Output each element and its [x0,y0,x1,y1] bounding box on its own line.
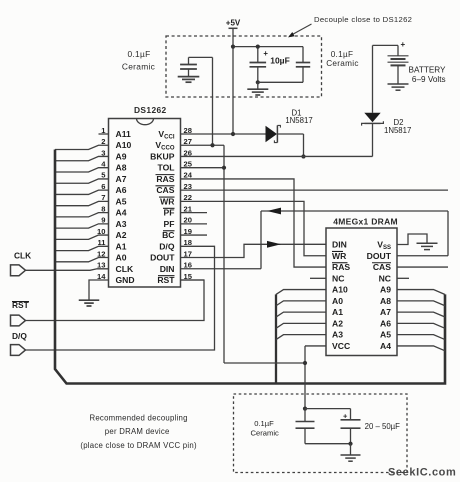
svg-text:A5: A5 [116,196,127,206]
svg-text:WR: WR [160,196,175,206]
wire bus entry U2 A5 [397,335,445,340]
svg-text:+5V: +5V [226,19,241,28]
svg-text:10µF: 10µF [270,56,290,66]
U1 left label A7 [116,174,127,184]
svg-text:DS1262: DS1262 [134,105,167,115]
wire U2 VCC [305,346,326,409]
wire DRAM DOUT to DIN (data return) [261,211,448,256]
svg-text:A4: A4 [116,208,127,218]
wire bus entry U2 A0 [276,301,326,306]
ground for 10uF [247,82,268,95]
U2 left label A10 [332,285,348,295]
U2 right label A5 [380,330,391,340]
U1 left label A11 [116,129,132,139]
battery BT1 6-9V [373,40,447,84]
U1 left label A6 [116,185,127,195]
U1 right label DIN pin 16 [160,264,175,274]
wire address bus entry pin 5 [55,179,109,183]
wire address bus entry pin 6 [55,190,109,194]
svg-text:A6: A6 [116,185,127,195]
U2 right label A9 [380,285,391,295]
IC U2 4MEGx1 DRAM package [326,216,398,355]
wire U2 CAS [397,266,448,268]
svg-text:0.1µF: 0.1µF [331,50,354,59]
wire U2 VSS to ground [397,234,427,245]
U1 pin 1 stub (A11, n/c) [99,133,109,135]
wire DOUT pin 17 to DRAM DIN [181,244,327,257]
node junction VCCO riser [210,143,214,147]
capacitor C5 20-50uF [341,409,401,444]
wire decoupling rail [305,408,351,410]
svg-text:0.1µF: 0.1µF [254,419,274,428]
svg-text:RAS: RAS [332,262,350,272]
U1 right label RAS pin 24 [156,174,175,184]
svg-text:BKUP: BKUP [150,151,175,161]
wire battery to D2 [372,45,374,112]
U1 pin number 8 [101,204,105,213]
U1 pin number 25 [184,159,193,168]
U1 right label TOL pin 25 [157,163,174,173]
svg-text:A3: A3 [116,219,127,229]
svg-text:1N5817: 1N5817 [384,126,411,135]
U1 pin number 3 [101,148,105,157]
wire bus entry U2 A3 [276,335,326,340]
wire D1 cathode to BKUP [277,134,303,156]
U1 pin number 27 [184,137,192,146]
watermark SeekIC.com [388,466,456,478]
svg-text:A1: A1 [116,241,127,251]
U1 pin number 23 [184,182,192,191]
U1 right label PF pin 21 [163,208,175,218]
wire address bus entry pin 8 [55,213,109,217]
U1 left label A5 [116,196,127,206]
svg-text:DOUT: DOUT [150,253,175,263]
wire TOL pin 25 to VCCO [181,167,225,169]
svg-text:per DRAM device: per DRAM device [105,427,170,436]
U1 pin 20 stub [181,223,208,225]
wire address bus entry pin 7 [55,201,109,205]
bus main address (left/bottom/right) [55,150,445,384]
ground for battery [388,84,409,90]
svg-text:1N5817: 1N5817 [285,116,312,125]
diode D1 1N5817 [266,108,313,142]
U2 right label DOUT [367,251,392,261]
U1 right label CAS pin 23 [156,185,175,195]
ground for decoupling [341,444,361,462]
node junction TOL/VCCO [222,166,226,170]
U2 NC stub left [310,277,326,279]
svg-text:TOL: TOL [157,163,174,173]
svg-text:A2: A2 [332,318,343,328]
U1 pin number 6 [101,182,105,191]
wire RAS pin 24 to DRAM [181,179,327,267]
wire BKUP pin 26 to D2 [181,155,373,157]
U2 left label RAS [332,262,350,272]
U2 right label A4 [380,341,391,351]
svg-text:4MEGx1 DRAM: 4MEGx1 DRAM [333,216,398,226]
U1 pin 21 stub [181,212,208,214]
U2 left label DIN [332,240,347,250]
wire C1 top to VCCO line [189,57,213,145]
U1 pin number 28 [184,126,192,135]
svg-text:NC: NC [332,273,344,283]
U1 pin number 26 [184,148,192,157]
svg-text:BATTERY: BATTERY [409,66,447,75]
svg-text:NC: NC [379,273,391,283]
svg-text:A10: A10 [332,285,348,295]
svg-text:Ceramic: Ceramic [326,59,359,68]
ground for U1 GND [79,300,100,306]
U1 right label V<ts pin 28 [158,129,174,141]
svg-text:0.1µF: 0.1µF [127,49,150,59]
capacitor C2 10uF electrolytic [250,47,290,83]
U1 left label A2 [116,230,127,240]
svg-text:A3: A3 [332,330,343,340]
svg-text:D/Q: D/Q [12,331,27,341]
svg-text:Recommended decoupling: Recommended decoupling [89,413,187,422]
svg-text:VCC: VCC [332,341,350,351]
U2 left label A2 [332,318,343,328]
U1 left label CLK [116,264,134,274]
wire D2 to BKUP line [372,123,374,156]
wire D/Q to pin 18 [26,246,215,350]
svg-text:+: + [263,49,268,58]
svg-text:Decouple close to DS1262: Decouple close to DS1262 [314,15,412,24]
svg-text:A4: A4 [380,341,391,351]
svg-text:DIN: DIN [160,264,175,274]
wire bus entry U2 A6 [397,323,445,328]
connector CLK [11,251,32,276]
svg-text:WR: WR [332,251,347,261]
U1 pin number 15 [184,272,193,281]
U1 pin number 16 [184,261,192,270]
wire VCCI pin 28 to D1 anode [181,133,266,135]
svg-text:A0: A0 [116,253,127,263]
U1 pin number 20 [184,216,192,225]
capacitor C3 0.1uF ceramic (in-box right) [296,47,310,83]
arrow into U1 DIN [267,208,281,215]
arrow into DRAM DIN [267,241,281,248]
U2 right label A8 [380,296,391,306]
note: recommended decoupling [80,413,197,450]
U2 right label CAS [372,262,391,272]
svg-text:Ceramic: Ceramic [251,429,279,438]
U1 right label D/Q pin 18 [159,241,175,251]
node junction +5V/VCCI [231,132,235,136]
U1 pin number 5 [101,171,106,180]
wire U2 DOUT [397,255,448,257]
svg-text:+: + [343,411,348,420]
IC U1 DS1262 package [109,105,181,287]
dashed box DRAM decoupling [234,394,408,473]
wire VCCO pin 27 [181,145,225,363]
wire address bus entry pin 4 [55,168,109,172]
capacitor C4 0.1uF ceramic [251,409,315,444]
connector D/Q [11,331,28,355]
U2 NC stub right [397,277,409,279]
U1 pin number 21 [184,204,193,213]
U2 left label A0 [332,296,343,306]
node junction 10uF top [256,45,260,49]
U1 left label A0 [116,253,127,263]
wire address bus entry pin 3 [55,156,109,160]
wire WR pin 22 to DRAM [181,201,327,255]
U1 right label V<ts pin 27 [155,140,174,152]
svg-text:A8: A8 [380,296,391,306]
svg-text:CAS: CAS [156,185,174,195]
svg-text:Ceramic: Ceramic [122,61,155,71]
svg-text:CAS: CAS [373,262,391,272]
svg-text:D/Q: D/Q [159,241,175,251]
svg-text:CLK: CLK [14,251,31,261]
annotation: Decouple close to DS1262 [288,15,412,37]
connector RST [11,300,30,326]
U1 pin number 7 [101,193,105,202]
node junction decoupling top [303,407,307,411]
U1 pin number 24 [184,171,193,180]
U2 right label V<ts [377,240,391,252]
U2 right label A6 [380,318,391,328]
svg-text:A10: A10 [116,140,132,150]
svg-text:BC: BC [162,230,174,240]
wire address bus entry pin 2 [55,145,109,149]
node junction VCC/VCCO [303,361,307,365]
svg-text:SeekIC.com: SeekIC.com [388,466,456,478]
node junction D1/BKUP [301,154,305,158]
wire bus entry U2 A1 [276,312,326,317]
svg-text:A9: A9 [380,285,391,295]
U1 pin number 18 [184,238,192,247]
U1 pin number 19 [184,227,192,236]
wire bus entry U2 A2 [276,323,326,328]
U1 pin number 10 [97,227,105,236]
wire address bus entry pin 10 [55,235,109,239]
wire C4 bottom to C5 [305,443,351,445]
svg-text:PF: PF [164,219,175,229]
U2 right label NC [379,273,391,283]
U1 pin number 1 [101,126,106,135]
wire address bus entry pin 9 [55,224,109,228]
svg-text:PF: PF [164,208,175,218]
U1 right label RST pin 15 [157,275,175,285]
U2 left label A3 [332,330,343,340]
wire bus entry U2 A10 [276,290,326,295]
svg-text:20 – 50µF: 20 – 50µF [365,422,401,431]
U1 left label A4 [116,208,127,218]
wire bus entry U2 A4 [397,346,445,351]
power rail +5V [226,19,241,135]
U1 right label DOUT pin 17 [150,253,175,263]
U1 pin 19 stub [181,234,208,236]
svg-text:(place close to DRAM VCC pin): (place close to DRAM VCC pin) [80,441,197,450]
wire CLK input to pin 13 [26,269,109,271]
wire bus entry U2 A7 [397,312,445,317]
U1 pin number 22 [184,193,192,202]
wire address bus entry pin 11 [55,246,109,250]
U2 right label A7 [380,307,391,317]
U2 left label WR [332,251,347,261]
U1 pin number 13 [97,261,105,270]
node junction +5V/cap rail [231,45,235,49]
U1 right label BC pin 19 [162,230,174,240]
U2 left label NC [332,273,344,283]
U2 left label VCC [332,341,350,351]
U1 pin number 9 [101,216,105,225]
U1 left label A1 [116,241,127,251]
decoupling dashed box [166,36,322,97]
U1 pin number 14 [97,272,106,281]
U1 pin number 17 [184,249,192,258]
wire 10uF bottom rail [258,81,303,83]
U1 left label A9 [116,151,127,161]
svg-text:A8: A8 [116,163,127,173]
U1 left label GND [116,275,135,285]
svg-text:A11: A11 [116,129,132,139]
svg-text:+: + [400,40,405,49]
wire RST to pin 15 [26,280,205,321]
wire VCCO to VCC [224,362,305,364]
svg-text:A5: A5 [380,330,391,340]
wire CAS pin 23 [181,189,449,191]
capacitor C1 0.1uF ceramic (left, label) [122,49,155,71]
U1 pin number 2 [101,137,105,146]
bus DRAM-left riser [275,294,277,383]
svg-text:A7: A7 [116,174,127,184]
svg-text:A1: A1 [332,307,343,317]
U1 pin 14 GND wire [89,280,109,300]
U2 left label A1 [332,307,343,317]
U1 pin number 12 [97,249,105,258]
svg-text:RAS: RAS [156,174,174,184]
U1 pin number 11 [97,238,106,247]
U1 left label A3 [116,219,127,229]
node junction 10uF bottom [256,80,260,84]
wire bus entry U2 A8 [397,301,445,306]
wire +5V rail to caps [233,46,303,48]
svg-text:A7: A7 [380,307,391,317]
U1 right label WR pin 22 [159,196,175,206]
svg-text:DOUT: DOUT [367,251,392,261]
capacitor C3 label (right of box) [326,50,359,68]
U1 left label A8 [116,163,127,173]
svg-text:A0: A0 [332,296,343,306]
node junction C5 bottom [348,442,352,446]
wire address bus entry pin 12 [55,258,109,262]
U1 left label A10 [116,140,132,150]
svg-text:A2: A2 [116,230,127,240]
svg-text:A6: A6 [380,318,391,328]
svg-text:CLK: CLK [116,264,134,274]
svg-text:RST: RST [157,275,175,285]
svg-text:6–9 Volts: 6–9 Volts [412,75,446,84]
svg-text:DIN: DIN [332,240,347,250]
U1 pin number 4 [101,159,106,168]
svg-text:GND: GND [116,275,135,285]
diode D2 1N5817 [362,113,412,135]
svg-text:A9: A9 [116,151,127,161]
U1 right label PF pin 20 [164,219,175,229]
ground for C1 [178,77,200,83]
wire DIN pin 16 riser [181,211,262,269]
U1 right label BKUP pin 26 [150,151,175,161]
wire bus entry U2 A9 [397,290,445,295]
ground for U2 VSS [417,243,438,249]
capacitor C1 0.1uF ceramic (left) [180,57,197,76]
